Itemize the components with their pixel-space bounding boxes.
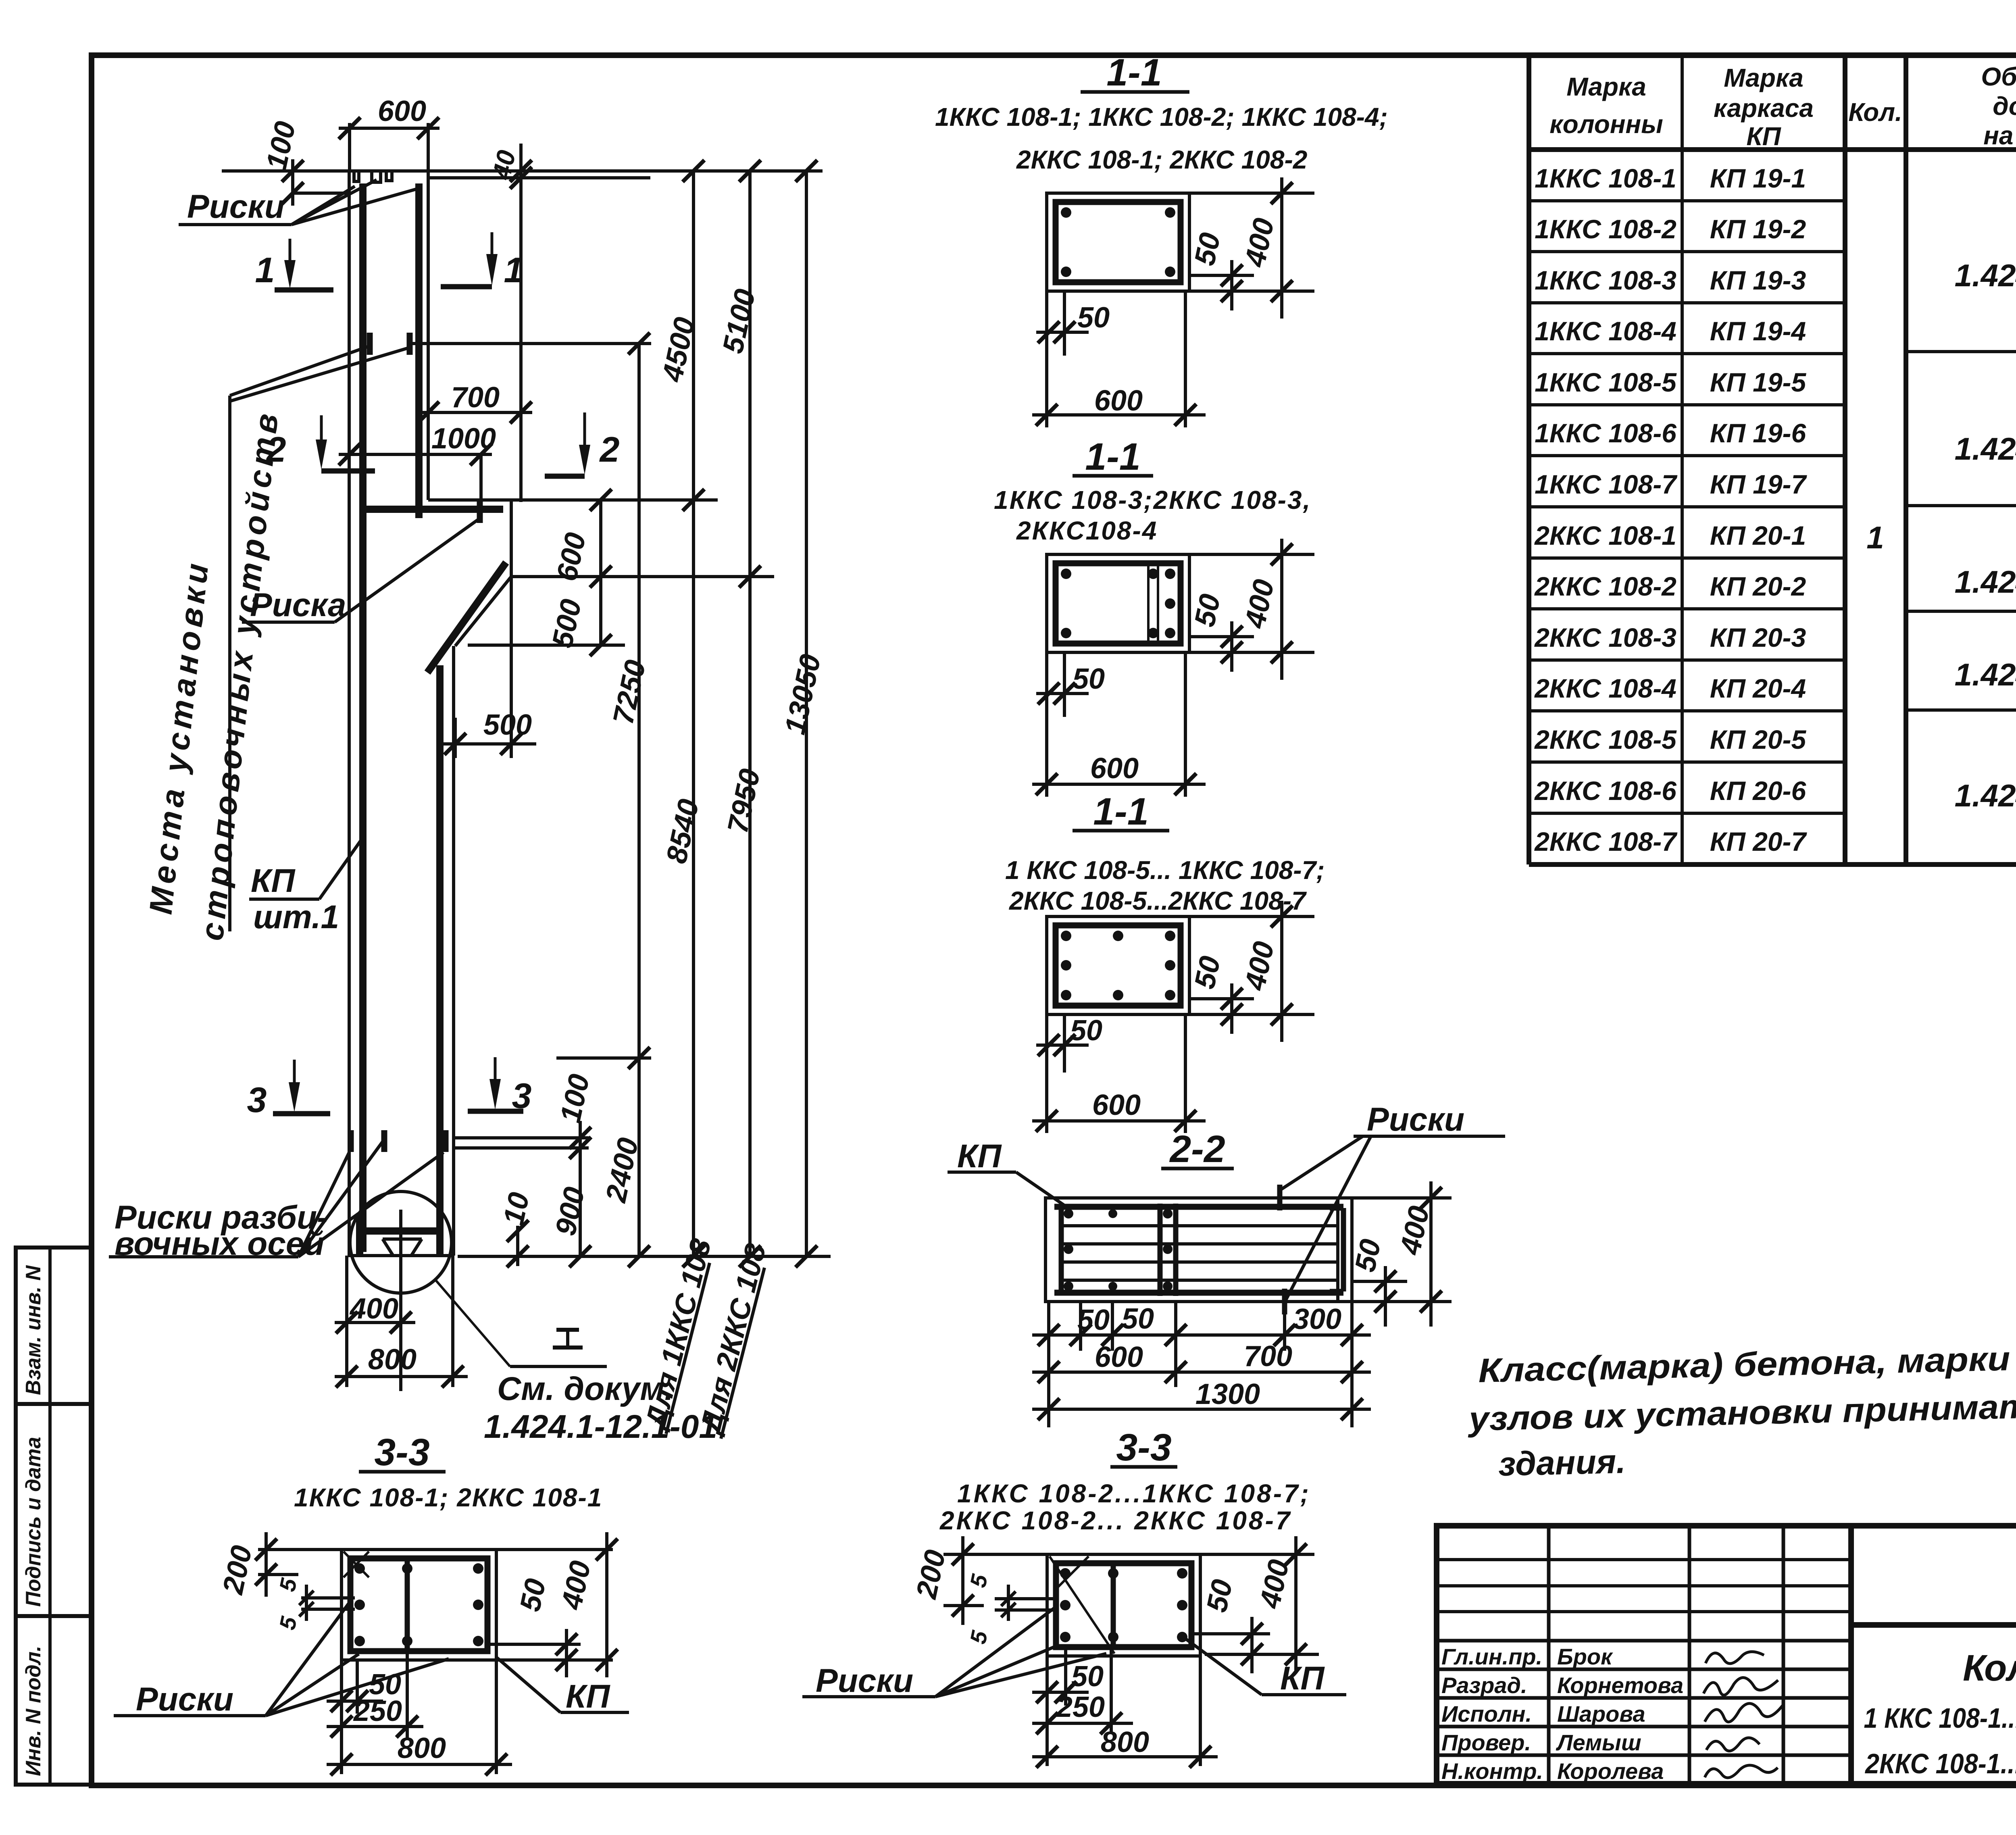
svg-text:600: 600	[1090, 752, 1139, 785]
svg-text:1.424.1-12.2-56: 1.424.1-12.2-56	[1955, 778, 2016, 813]
svg-text:2-2: 2-2	[1169, 1128, 1225, 1171]
svg-text:400: 400	[1239, 939, 1281, 994]
svg-text:Класс(марка) бетона, марки зак: Класс(марка) бетона, марки закладных изд…	[1478, 1327, 2016, 1389]
svg-text:Брок: Брок	[1557, 1644, 1613, 1669]
svg-text:1.424.1-12.1-01: 1.424.1-12.1-01	[484, 1408, 717, 1445]
svg-text:50: 50	[1349, 1236, 1387, 1275]
svg-text:50: 50	[1073, 663, 1105, 695]
svg-text:200: 200	[910, 1547, 952, 1602]
svg-text:Шарова: Шарова	[1557, 1701, 1645, 1727]
svg-text:шт.1: шт.1	[253, 899, 339, 935]
svg-text:2ККС 108-3: 2ККС 108-3	[1534, 623, 1677, 652]
svg-text:КП 20-2: КП 20-2	[1710, 571, 1806, 601]
svg-text:КП 20-6: КП 20-6	[1710, 776, 1807, 806]
svg-text:Королева: Королева	[1557, 1758, 1664, 1784]
svg-text:700: 700	[1244, 1340, 1292, 1373]
svg-text:1ККС 108-2: 1ККС 108-2	[1535, 214, 1677, 244]
svg-text:2ККС 108-1; 2ККС 108-2: 2ККС 108-1; 2ККС 108-2	[1016, 145, 1307, 174]
svg-text:5100: 5100	[716, 286, 762, 356]
svg-text:3-3: 3-3	[374, 1431, 429, 1474]
svg-text:3: 3	[247, 1080, 267, 1120]
svg-text:1: 1	[504, 250, 524, 290]
svg-text:100: 100	[260, 119, 302, 173]
svg-text:1ККС 108-6: 1ККС 108-6	[1535, 418, 1677, 448]
svg-text:1.424.1-12.2-52: 1.424.1-12.2-52	[1955, 258, 2016, 293]
svg-text:КП 19-2: КП 19-2	[1710, 214, 1806, 244]
svg-text:300: 300	[1293, 1303, 1341, 1335]
svg-text:КП: КП	[251, 862, 296, 899]
svg-text:50: 50	[514, 1576, 552, 1614]
svg-text:здания.: здания.	[1498, 1442, 1626, 1483]
svg-text:400: 400	[349, 1293, 398, 1325]
svg-text:600: 600	[1092, 1089, 1141, 1121]
svg-text:1000: 1000	[431, 423, 496, 455]
svg-text:Провер.: Провер.	[1441, 1730, 1531, 1755]
svg-text:КП: КП	[1746, 122, 1781, 151]
svg-text:1.424.1-12.2-53: 1.424.1-12.2-53	[1955, 431, 2016, 467]
svg-text:100: 100	[554, 1071, 596, 1125]
svg-text:Корнетова: Корнетова	[1557, 1673, 1683, 1698]
svg-text:13050: 13050	[779, 652, 827, 737]
svg-text:200: 200	[217, 1543, 258, 1598]
svg-text:КП 19-3: КП 19-3	[1710, 265, 1806, 295]
svg-text:Н.контр.: Н.контр.	[1441, 1758, 1543, 1784]
svg-text:50: 50	[1070, 1014, 1102, 1047]
svg-text:7950: 7950	[721, 766, 766, 836]
svg-text:Риски: Риски	[187, 188, 285, 225]
svg-text:400: 400	[555, 1558, 597, 1613]
svg-text:1ККС 108-2...1ККС 108-7;: 1ККС 108-2...1ККС 108-7;	[957, 1479, 1311, 1508]
svg-text:400: 400	[1239, 215, 1281, 270]
svg-text:3-3: 3-3	[1116, 1426, 1171, 1469]
svg-text:1ККС 108-5: 1ККС 108-5	[1535, 367, 1677, 397]
svg-text:Марка: Марка	[1566, 72, 1646, 101]
svg-text:КП 20-7: КП 20-7	[1710, 827, 1808, 856]
svg-text:на каркас КП: на каркас КП	[1983, 121, 2016, 150]
svg-text:2ККС 108-2: 2ККС 108-2	[1534, 571, 1677, 601]
svg-text:Риски: Риски	[136, 1681, 233, 1718]
svg-text:Марка: Марка	[1724, 63, 1804, 92]
svg-text:КП: КП	[566, 1678, 610, 1715]
svg-text:5: 5	[274, 1576, 302, 1593]
svg-text:1ККС 108-3;2ККС 108-3,: 1ККС 108-3;2ККС 108-3,	[994, 485, 1311, 514]
svg-text:800: 800	[398, 1732, 446, 1764]
svg-text:1300: 1300	[1195, 1378, 1260, 1410]
svg-text:1 ККС 108-5... 1ККС 108-7;: 1 ККС 108-5... 1ККС 108-7;	[1005, 856, 1325, 885]
svg-text:50: 50	[1077, 1304, 1110, 1336]
svg-text:КП: КП	[1280, 1660, 1325, 1697]
svg-text:Взам. инв. N: Взам. инв. N	[22, 1265, 45, 1395]
svg-text:1ККС 108-3: 1ККС 108-3	[1535, 265, 1677, 295]
svg-text:КП 20-3: КП 20-3	[1710, 623, 1806, 652]
svg-text:КП 20-4: КП 20-4	[1710, 673, 1806, 703]
svg-text:КП 20-5: КП 20-5	[1710, 725, 1807, 754]
svg-text:Исполн.: Исполн.	[1441, 1701, 1532, 1727]
svg-text:2ККС 108-2... 2ККС 108-7: 2ККС 108-2... 2ККС 108-7	[939, 1506, 1292, 1535]
svg-text:См. докум.: См. докум.	[497, 1371, 674, 1407]
svg-text:50: 50	[1122, 1303, 1154, 1335]
svg-text:800: 800	[368, 1343, 417, 1376]
svg-text:Подпись и дата: Подпись и дата	[22, 1437, 45, 1607]
svg-text:Кол.: Кол.	[1848, 98, 1902, 127]
svg-text:1.424.1-12.2-54: 1.424.1-12.2-54	[1955, 564, 2016, 600]
svg-text:вочных осей: вочных осей	[115, 1225, 325, 1262]
svg-text:КП 19-7: КП 19-7	[1710, 469, 1808, 499]
svg-text:5: 5	[965, 1628, 992, 1646]
svg-text:КП 19-6: КП 19-6	[1710, 418, 1807, 448]
svg-text:50: 50	[1200, 1577, 1239, 1615]
svg-text:1ККС 108-1; 2ККС 108-1: 1ККС 108-1; 2ККС 108-1	[294, 1483, 602, 1512]
svg-text:Лемыш: Лемыш	[1556, 1730, 1641, 1755]
svg-text:Гл.ин.пр.: Гл.ин.пр.	[1441, 1644, 1542, 1669]
svg-text:50: 50	[1077, 302, 1110, 334]
svg-text:1-1: 1-1	[1093, 790, 1148, 833]
svg-text:1: 1	[255, 250, 275, 290]
svg-text:400: 400	[1239, 577, 1281, 631]
svg-text:400: 400	[1254, 1557, 1295, 1612]
svg-text:колонны: колонны	[1549, 110, 1663, 139]
svg-text:500: 500	[483, 709, 532, 741]
svg-text:2: 2	[599, 429, 620, 469]
svg-text:каркаса: каркаса	[1714, 94, 1814, 123]
svg-text:1: 1	[1866, 520, 1884, 555]
svg-text:2ККС108-4: 2ККС108-4	[1016, 516, 1158, 545]
svg-text:КП: КП	[957, 1138, 1002, 1175]
svg-text:документа: документа	[1993, 92, 2016, 121]
svg-text:500: 500	[546, 596, 587, 650]
svg-text:КП 19-4: КП 19-4	[1710, 316, 1806, 346]
svg-text:1ККС 108-7: 1ККС 108-7	[1535, 469, 1678, 499]
svg-text:5: 5	[965, 1572, 992, 1589]
svg-text:Риски: Риски	[816, 1662, 913, 1699]
svg-text:2ККС 108-7: 2ККС 108-7	[1534, 827, 1678, 856]
svg-text:2ККС 108-5: 2ККС 108-5	[1534, 725, 1677, 754]
svg-text:8540: 8540	[660, 796, 705, 866]
svg-text:1.424.1-12.2-55: 1.424.1-12.2-55	[1955, 657, 2016, 692]
svg-text:2ККС 108-1: 2ККС 108-1	[1534, 521, 1677, 550]
svg-text:2ККС 108-5...2ККС 108-7: 2ККС 108-5...2ККС 108-7	[1009, 886, 1307, 915]
svg-text:600: 600	[1094, 385, 1143, 417]
svg-text:3: 3	[512, 1076, 532, 1116]
svg-text:50: 50	[1071, 1660, 1104, 1693]
svg-text:2ККС 108-4: 2ККС 108-4	[1534, 673, 1677, 703]
svg-text:900: 900	[549, 1184, 591, 1238]
svg-text:Риски: Риски	[1367, 1101, 1464, 1138]
svg-text:1 ККС 108-1...1ККС 108-7;: 1 ККС 108-1...1ККС 108-7;	[1864, 1702, 2016, 1734]
svg-text:1ККС 108-1: 1ККС 108-1	[1535, 163, 1677, 193]
svg-text:1ККС 108-1; 1ККС 108-2; 1ККС 1: 1ККС 108-1; 1ККС 108-2; 1ККС 108-4;	[935, 102, 1388, 131]
svg-text:10: 10	[497, 1189, 535, 1228]
svg-text:КП 19-5: КП 19-5	[1710, 367, 1807, 397]
svg-text:50: 50	[1188, 230, 1227, 268]
svg-text:250: 250	[1056, 1691, 1105, 1723]
svg-text:2ККС 108-6: 2ККС 108-6	[1534, 776, 1677, 806]
svg-text:1ККС 108-4: 1ККС 108-4	[1535, 316, 1677, 346]
svg-text:700: 700	[451, 381, 500, 414]
svg-text:2ККС 108-1...2ККС 108-7: 2ККС 108-1...2ККС 108-7	[1864, 1748, 2016, 1779]
svg-text:Колонна: Колонна	[1963, 1648, 2016, 1689]
svg-text:1-1: 1-1	[1106, 51, 1162, 94]
svg-text:600: 600	[378, 95, 426, 127]
svg-text:1-1: 1-1	[1085, 435, 1140, 478]
svg-text:600: 600	[1095, 1341, 1143, 1373]
svg-text:Разрад.: Разрад.	[1441, 1673, 1527, 1698]
svg-text:5: 5	[274, 1614, 302, 1632]
svg-text:КП 20-1: КП 20-1	[1710, 521, 1806, 550]
svg-text:Инв. N подл.: Инв. N подл.	[22, 1645, 45, 1776]
svg-text:50: 50	[1188, 953, 1227, 991]
svg-text:800: 800	[1101, 1726, 1149, 1758]
svg-text:250: 250	[353, 1695, 402, 1727]
svg-text:КП 19-1: КП 19-1	[1710, 163, 1806, 193]
svg-text:50: 50	[1188, 591, 1227, 629]
svg-text:7250: 7250	[607, 657, 652, 727]
svg-text:Обозначение: Обозначение	[1981, 62, 2016, 91]
